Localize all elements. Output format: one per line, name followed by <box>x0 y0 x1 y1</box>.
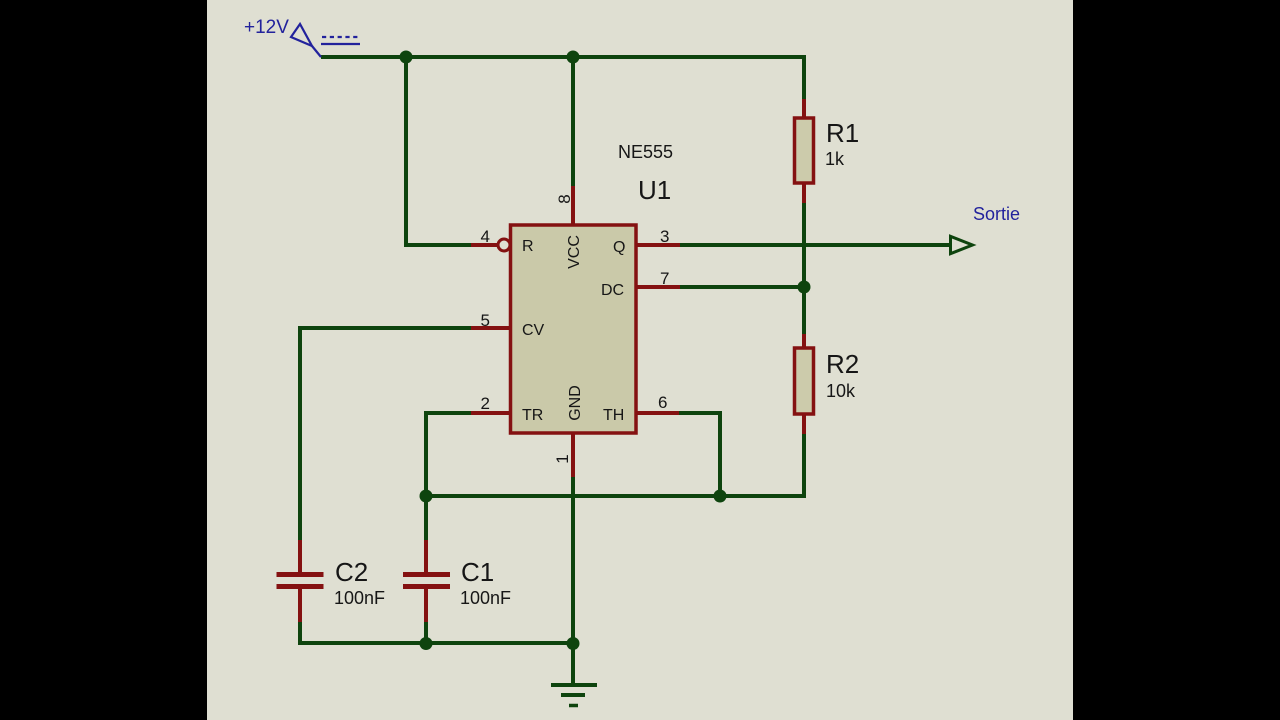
op-amp U1 body (NE555 timer) <box>511 225 637 433</box>
wire left branch to pin 4 <box>406 57 471 245</box>
svg-text:4: 4 <box>481 227 490 246</box>
svg-text:7: 7 <box>660 269 669 288</box>
svg-text:C1: C1 <box>461 557 494 587</box>
junction node TR/C1 <box>420 490 433 503</box>
svg-text:R: R <box>522 238 534 255</box>
svg-text:Q: Q <box>613 239 625 256</box>
svg-text:8: 8 <box>555 194 574 203</box>
wire VCC down to pin 8 <box>571 57 575 186</box>
svg-text:R2: R2 <box>826 349 859 379</box>
svg-text:NE555: NE555 <box>618 142 673 162</box>
pin 4 stub <box>471 243 498 247</box>
svg-text:5: 5 <box>481 311 490 330</box>
junction node DC/R1/R2 <box>798 281 811 294</box>
pin 6 stub <box>636 411 679 415</box>
svg-text:100nF: 100nF <box>460 588 511 608</box>
junction node TH <box>714 490 727 503</box>
svg-text:1k: 1k <box>825 149 845 169</box>
pin 7 stub <box>636 285 680 289</box>
wire R2 bottom to mid node <box>802 434 806 498</box>
svg-text:10k: 10k <box>826 381 856 401</box>
pin 2 stub <box>471 411 511 415</box>
svg-text:CV: CV <box>522 322 545 339</box>
pin 8 stub <box>571 186 575 224</box>
capacitor C1 top lead <box>424 540 428 573</box>
wire C1 bottom <box>424 622 428 645</box>
power terminal +12V <box>291 24 360 57</box>
resistor R1 bottom lead <box>802 182 806 203</box>
wire R1 bottom to node DC <box>802 203 806 334</box>
wire TH down <box>679 413 720 496</box>
pin 1 stub <box>571 433 575 477</box>
capacitor C2 bottom lead <box>298 584 302 622</box>
wire C2 bottom <box>300 622 573 643</box>
resistor R2 bottom lead <box>802 413 806 434</box>
capacitor C1 plates <box>403 572 450 589</box>
wire TR to node <box>426 413 471 540</box>
junction node pin1 ground <box>567 637 580 650</box>
pin 4 inversion bubble <box>498 239 510 251</box>
wire pin1 GND down <box>571 477 575 643</box>
pin 3 stub <box>636 243 680 247</box>
svg-text:U1: U1 <box>638 175 671 205</box>
wire Q output to Sortie <box>680 243 950 247</box>
resistor R2 body <box>795 348 814 414</box>
svg-text:3: 3 <box>660 227 669 246</box>
svg-text:TH: TH <box>603 407 624 424</box>
output arrow Sortie <box>951 236 973 253</box>
svg-text:GND: GND <box>567 385 584 421</box>
svg-text:6: 6 <box>658 393 667 412</box>
junction node top-left <box>400 51 413 64</box>
wire DC pin7 to node <box>680 285 804 289</box>
resistor R1 body <box>795 118 814 183</box>
capacitor C2 top lead <box>298 540 302 573</box>
svg-text:C2: C2 <box>335 557 368 587</box>
wire mid node horizontal <box>424 494 804 498</box>
pin 5 stub <box>471 326 511 330</box>
wire rail to R1 top <box>802 55 806 99</box>
junction node C1 ground <box>420 637 433 650</box>
svg-text:Sortie: Sortie <box>973 204 1020 224</box>
svg-text:2: 2 <box>481 394 490 413</box>
svg-text:R1: R1 <box>826 118 859 148</box>
ground <box>551 685 597 706</box>
svg-text:1: 1 <box>553 454 572 463</box>
svg-text:DC: DC <box>601 282 624 299</box>
wire VCC top rail <box>321 55 804 59</box>
svg-text:+12V: +12V <box>244 17 289 38</box>
wire ground stem <box>571 643 575 684</box>
svg-text:100nF: 100nF <box>334 588 385 608</box>
resistor R2 top lead <box>802 334 806 349</box>
wire CV to C2 <box>300 328 471 540</box>
svg-text:VCC: VCC <box>566 235 583 269</box>
resistor R1 top lead <box>802 99 806 119</box>
svg-text:TR: TR <box>522 407 543 424</box>
junction node top-vcc <box>567 51 580 64</box>
capacitor C1 bottom lead <box>424 584 428 622</box>
capacitor C2 plates <box>277 572 324 589</box>
